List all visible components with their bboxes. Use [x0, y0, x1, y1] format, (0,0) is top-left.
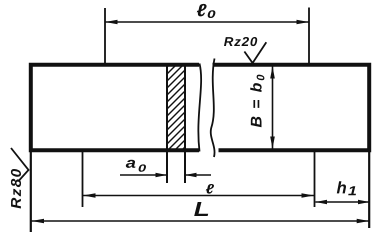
dimension l0: right arrowhead — [297, 20, 310, 25]
dimension a0: right leader with left-pointing arrowhead — [185, 174, 211, 176]
dimension l0: right extension line — [308, 8, 310, 66]
dimension l: right extension line — [314, 152, 316, 207]
dimension l0: left extension line — [104, 8, 106, 64]
right edge extension line — [368, 150, 370, 228]
label l0 — [197, 4, 207, 16]
dimension L: right arrowhead — [357, 219, 370, 224]
dimension L: left arrowhead — [32, 219, 45, 224]
dimension l: dimension line — [83, 195, 314, 197]
label B = b0 (rotated) — [250, 83, 261, 127]
break line right (wavy) — [211, 59, 215, 158]
roughness Rz20 check mark — [244, 42, 266, 63]
roughness Rz20 label — [224, 37, 257, 46]
dimension l0: dimension line — [105, 21, 309, 23]
dimension B=b0: vertical dimension line — [272, 66, 274, 149]
dimension a0: left leader with right-pointing arrowhead — [120, 174, 167, 176]
dimension l: left extension line — [82, 152, 84, 207]
label L — [194, 202, 208, 216]
label h1 — [337, 181, 346, 193]
dimension a0: label — [126, 160, 136, 168]
break line left (wavy) — [198, 64, 201, 152]
roughness Rz80 label (rotated) — [11, 169, 21, 209]
bar outline left part — [31, 65, 199, 150]
dimension h1: dimension line — [316, 201, 370, 203]
dimension B=b0: bottom arrowhead — [270, 137, 275, 150]
dimension l: left arrowhead — [83, 193, 96, 198]
dimension h1: left arrowhead — [316, 200, 328, 204]
left edge extension line — [30, 150, 32, 232]
roughness Rz80 check mark — [11, 148, 29, 181]
hatched strip right boundary / a0 extension line — [184, 64, 186, 184]
dimension l: right arrowhead — [302, 193, 315, 198]
dimension l0: left arrowhead — [105, 20, 118, 25]
hatched strip left boundary / a0 extension line — [166, 64, 168, 184]
dimension h1: right arrowhead — [358, 200, 370, 204]
label l — [206, 184, 214, 194]
bar outline right part — [213, 65, 370, 150]
dimension B=b0: top arrowhead — [270, 66, 275, 79]
dimension L: dimension line — [32, 220, 370, 222]
